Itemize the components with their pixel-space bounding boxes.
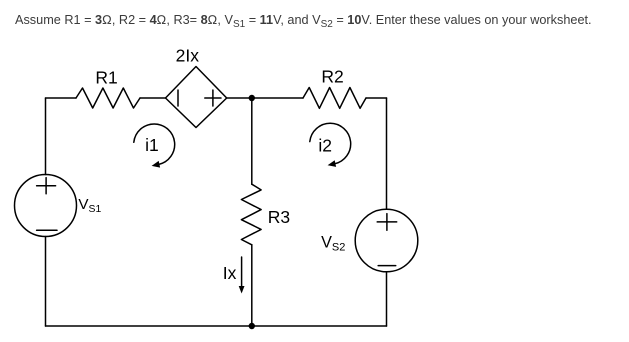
- resistor R3: [241, 184, 261, 245]
- svg-text:i1: i1: [145, 135, 159, 155]
- minus terminal bar of U1: [177, 90, 179, 106]
- arrowhead of Ix: [239, 286, 245, 294]
- wire middle vertical upper: [251, 98, 253, 184]
- minus sign of VS2: [378, 265, 396, 267]
- arrowhead of i2: [328, 160, 337, 167]
- node A junction dot: [249, 95, 255, 101]
- svg-text:R3: R3: [268, 207, 290, 227]
- wire right vertical upper: [386, 98, 388, 209]
- plus sign of VS2: [377, 214, 397, 231]
- resistor R1: [76, 88, 140, 108]
- current arrow Ix: [241, 257, 243, 288]
- plus sign of U1: [205, 90, 221, 106]
- svg-text:Ix: Ix: [223, 263, 237, 283]
- wire R1 to dependent source: [140, 97, 166, 99]
- mesh current arrow i1: [134, 124, 175, 165]
- wire top-left lead: [46, 97, 77, 99]
- voltage source VS2: [355, 209, 418, 272]
- svg-text:2Ix: 2Ix: [176, 46, 200, 66]
- resistor R2: [303, 88, 366, 109]
- plus sign of VS1: [37, 178, 56, 194]
- wire dependent source to node A: [227, 97, 303, 99]
- svg-text:R1: R1: [95, 68, 117, 88]
- arrowhead of i1: [152, 161, 161, 168]
- minus sign of VS1: [37, 229, 57, 231]
- dependent source U1 diamond: [166, 67, 227, 128]
- wire left vertical lower: [45, 237, 47, 327]
- wire R2 to right corner: [366, 97, 387, 99]
- voltage source VS1: [15, 175, 77, 237]
- wire left vertical upper: [45, 98, 47, 175]
- mesh current arrow i2: [310, 123, 351, 164]
- wire middle vertical lower: [251, 245, 253, 326]
- node B junction dot: [249, 323, 255, 329]
- svg-text:i2: i2: [318, 135, 332, 155]
- wire bottom: [46, 325, 387, 327]
- svg-text:R2: R2: [321, 66, 343, 86]
- wire right vertical lower: [386, 272, 388, 326]
